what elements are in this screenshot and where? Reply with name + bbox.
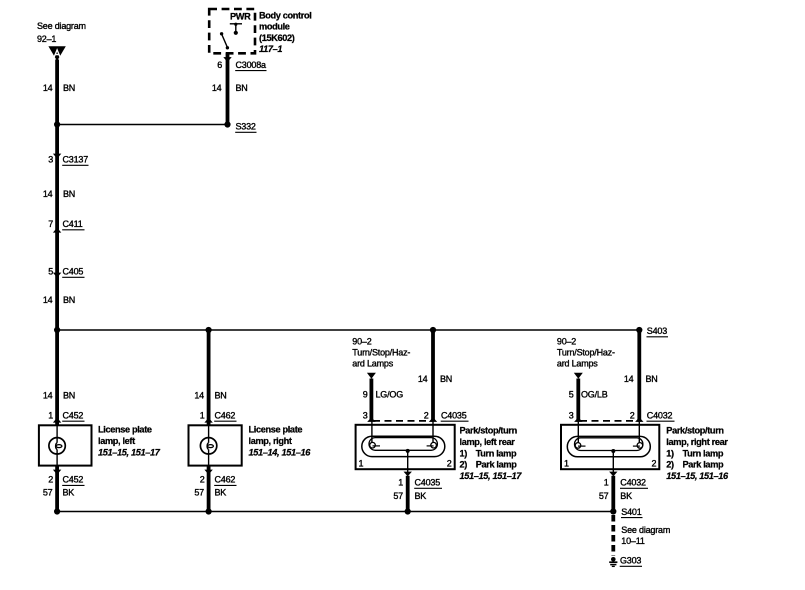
svg-text:14: 14 [43,391,53,401]
svg-text:14: 14 [418,374,428,384]
svg-text:117–1: 117–1 [259,44,282,54]
svg-text:S401: S401 [621,507,641,517]
svg-text:C452: C452 [63,410,84,420]
svg-text:License plate: License plate [98,425,152,435]
svg-text:C411: C411 [63,219,83,229]
svg-text:Turn/Stop/Haz-: Turn/Stop/Haz- [557,348,615,358]
svg-text:G303: G303 [620,556,641,566]
svg-text:ard Lamps: ard Lamps [557,359,598,369]
svg-text:BN: BN [63,295,75,305]
svg-text:C3008a: C3008a [236,60,267,70]
svg-text:BN: BN [63,189,75,199]
svg-text:BK: BK [215,488,227,498]
svg-text:lamp, right: lamp, right [249,436,292,446]
svg-text:3: 3 [569,410,574,420]
svg-text:S403: S403 [647,326,667,336]
svg-text:2: 2 [48,475,53,485]
svg-text:License plate: License plate [249,425,303,435]
svg-text:C452: C452 [63,475,84,485]
svg-text:3: 3 [363,410,368,420]
svg-text:1: 1 [359,459,364,469]
svg-text:Park/stop/turn: Park/stop/turn [666,426,724,436]
svg-text:Body control: Body control [259,10,311,20]
svg-text:Park lamp: Park lamp [683,460,725,470]
svg-text:C4035: C4035 [441,410,467,420]
svg-text:BN: BN [215,391,227,401]
svg-text:Turn/Stop/Haz-: Turn/Stop/Haz- [352,348,410,358]
svg-text:2): 2) [460,460,468,470]
svg-text:S332: S332 [236,122,256,132]
svg-text:BK: BK [63,488,75,498]
svg-text:C462: C462 [215,410,236,420]
svg-text:2: 2 [630,410,635,420]
svg-text:14: 14 [43,83,53,93]
svg-text:lamp, right rear: lamp, right rear [666,437,728,447]
svg-text:2: 2 [447,459,452,469]
svg-text:Turn lamp: Turn lamp [476,448,517,458]
svg-text:BK: BK [620,491,632,501]
svg-text:BN: BN [236,83,248,93]
svg-text:BN: BN [63,391,75,401]
svg-text:90–2: 90–2 [352,337,371,347]
svg-text:57: 57 [393,491,403,501]
svg-text:Turn lamp: Turn lamp [683,448,724,458]
svg-text:Park/stop/turn: Park/stop/turn [460,426,518,436]
svg-text:14: 14 [624,374,634,384]
svg-text:1): 1) [460,448,468,458]
svg-text:BK: BK [415,491,427,501]
svg-text:C4032: C4032 [620,478,646,488]
svg-text:57: 57 [599,491,609,501]
svg-text:OG/LB: OG/LB [581,390,608,400]
svg-text:9: 9 [363,390,368,400]
svg-text:BN: BN [440,374,452,384]
svg-text:1): 1) [666,448,674,458]
svg-text:See diagram: See diagram [37,21,86,31]
svg-text:C4035: C4035 [415,478,441,488]
svg-text:LG/OG: LG/OG [376,390,404,400]
svg-text:92–1: 92–1 [37,34,56,44]
svg-text:2: 2 [200,475,205,485]
svg-text:14: 14 [212,83,222,93]
svg-text:lamp, left: lamp, left [98,436,135,446]
svg-text:Park lamp: Park lamp [476,460,518,470]
svg-text:2: 2 [651,459,656,469]
svg-text:ard Lamps: ard Lamps [352,359,393,369]
svg-text:1: 1 [604,478,609,488]
svg-text:14: 14 [43,295,53,305]
svg-text:1: 1 [48,410,53,420]
svg-text:2): 2) [666,460,674,470]
svg-text:C462: C462 [215,475,236,485]
svg-text:1: 1 [200,410,205,420]
svg-text:151–15, 151–17: 151–15, 151–17 [98,448,161,458]
svg-text:5: 5 [569,390,574,400]
svg-text:10–11: 10–11 [621,536,645,546]
svg-text:14: 14 [194,391,204,401]
svg-text:1: 1 [564,459,569,469]
svg-text:See diagram: See diagram [621,525,670,535]
svg-text:BN: BN [63,83,75,93]
svg-text:PWR: PWR [230,12,251,22]
svg-text:BN: BN [646,374,658,384]
svg-text:lamp, left rear: lamp, left rear [460,437,516,447]
svg-text:151–15, 151–17: 151–15, 151–17 [460,471,523,481]
svg-text:57: 57 [43,488,53,498]
svg-text:2: 2 [424,410,429,420]
svg-text:14: 14 [43,189,53,199]
svg-text:C4032: C4032 [647,410,673,420]
svg-text:1: 1 [398,478,403,488]
svg-text:151–14, 151–16: 151–14, 151–16 [249,448,312,458]
svg-text:module: module [259,22,290,32]
svg-text:6: 6 [217,60,222,70]
svg-text:151–15, 151–16: 151–15, 151–16 [666,471,729,481]
svg-text:(15K602): (15K602) [259,33,295,43]
svg-text:C405: C405 [63,267,84,277]
svg-text:5: 5 [48,267,53,277]
svg-text:57: 57 [194,488,204,498]
svg-text:3: 3 [48,155,53,165]
svg-text:90–2: 90–2 [557,337,576,347]
svg-text:7: 7 [48,219,53,229]
svg-text:C3137: C3137 [63,155,89,165]
